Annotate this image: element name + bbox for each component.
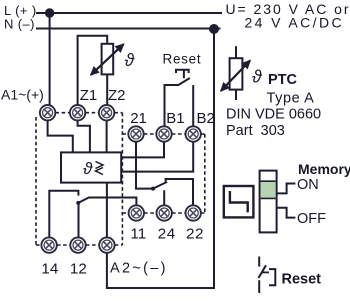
reset button S1 actuator: [176, 70, 189, 79]
contact K2 common from 21: [136, 142, 153, 189]
PTC sensor symbol body: [230, 58, 243, 89]
contact K1 blade: [78, 198, 136, 206]
OFF position bracket: [277, 208, 296, 218]
contact K1 pivot on 12 lead: [76, 201, 80, 205]
relay box U1: [61, 152, 121, 182]
svg-text:Part 303: Part 303: [226, 123, 285, 139]
PTC sensor variability arrow: [221, 61, 250, 91]
wire A1 supply drop: [49, 13, 51, 105]
wire right rail N to A2: [107, 29, 214, 288]
memory slider body: [260, 171, 277, 233]
reset button S1 contact: [165, 78, 190, 126]
svg-text:11: 11: [130, 226, 146, 243]
svg-text:OFF: OFF: [297, 211, 326, 227]
terminal A1: [40, 105, 55, 120]
svg-text:B1: B1: [166, 110, 184, 127]
reset contact S2 blade: [258, 265, 266, 278]
svg-text:Memory: Memory: [298, 161, 350, 177]
symbol greater-less in relay box: [96, 162, 104, 175]
svg-text:14: 14: [41, 261, 58, 278]
wire A1 into relay box: [48, 120, 73, 152]
svg-text:N (–): N (–): [4, 16, 35, 31]
svg-text:24 V AC/DC: 24 V AC/DC: [245, 15, 344, 31]
svg-text:ϑ: ϑ: [252, 67, 263, 87]
svg-text:Type A: Type A: [267, 91, 315, 107]
wire N rail: [36, 28, 221, 30]
wire 24 stub: [163, 190, 165, 205]
reset contact S2 actuator bracket: [269, 269, 275, 285]
svg-text:Z1: Z1: [80, 87, 98, 104]
wire B2 to reset: [192, 85, 194, 126]
contact K2 pivot: [151, 187, 155, 191]
svg-text:ϑ: ϑ: [83, 159, 93, 178]
wire Z1 into relay box: [78, 120, 90, 152]
node junction on L: [45, 8, 54, 17]
terminal 12: [70, 237, 85, 252]
svg-text:A2~(–): A2~(–): [110, 261, 168, 277]
wire relay box to A2: [106, 183, 108, 238]
wire B1 into relay box: [121, 142, 164, 158]
reset contact S2 bottom lead: [258, 280, 260, 293]
svg-text:ϑ: ϑ: [125, 50, 136, 70]
terminal 22: [186, 205, 201, 220]
svg-text:21: 21: [130, 110, 147, 127]
memory slider green knob: [261, 181, 276, 198]
svg-text:Reset: Reset: [282, 272, 322, 288]
wire sensor to Z2: [106, 74, 108, 105]
terminal Z1: [70, 105, 85, 120]
thermistor RT1 variability arrow: [91, 44, 124, 75]
svg-text:24: 24: [158, 226, 176, 243]
terminal A2: [99, 237, 114, 252]
memory latch function box: [224, 186, 254, 217]
svg-text:22: 22: [186, 226, 204, 243]
dashed row 14 12 A2: [36, 244, 122, 246]
svg-text:DIN VDE 0660: DIN VDE 0660: [226, 107, 321, 123]
svg-text:Reset: Reset: [163, 52, 202, 67]
contact K1 fixed lead from 14: [49, 191, 78, 238]
memory latch step symbol: [230, 191, 248, 212]
wire B2 into relay box: [121, 142, 193, 172]
PTC sensor bottom lead: [235, 90, 237, 100]
terminal Z2: [99, 105, 114, 120]
svg-text:PTC: PTC: [268, 72, 298, 88]
wire Z1 loop to sensor: [78, 36, 108, 106]
terminal 14: [41, 237, 56, 252]
dashed row 11 24 22: [122, 212, 204, 214]
wire L rail: [36, 12, 222, 14]
terminal 24: [157, 205, 172, 220]
svg-text:A1~(+): A1~(+): [1, 87, 44, 103]
contact K2 blade: [153, 182, 167, 189]
svg-text:Z2: Z2: [108, 87, 126, 104]
reset contact S2 actuator link: [263, 271, 270, 273]
node junction on N: [209, 24, 219, 34]
terminal 11: [129, 205, 144, 220]
reset contact S2 top lead: [258, 257, 260, 267]
dashed enclosure mid vertical: [121, 113, 123, 245]
wire 12 riser: [78, 203, 80, 237]
dashed enclosure left side: [35, 117, 37, 245]
svg-text:B2: B2: [197, 110, 215, 127]
dashed row A1 Z1 Z2: [55, 112, 122, 114]
wire 22 fixed lead: [166, 179, 193, 205]
thermistor RT1 body: [102, 44, 114, 75]
wire Z2 into relay box: [106, 120, 108, 152]
dashed row 21 B1 B2: [122, 133, 204, 135]
ON position bracket: [277, 184, 296, 194]
svg-text:12: 12: [70, 261, 87, 278]
terminal 21: [128, 126, 143, 141]
memory slider knob edges: [261, 181, 276, 198]
svg-text:ON: ON: [297, 177, 319, 193]
terminal B2: [186, 126, 201, 141]
terminal B1: [156, 126, 171, 141]
dashed enclosure right vertical: [204, 134, 206, 213]
PTC sensor top lead: [235, 46, 237, 58]
